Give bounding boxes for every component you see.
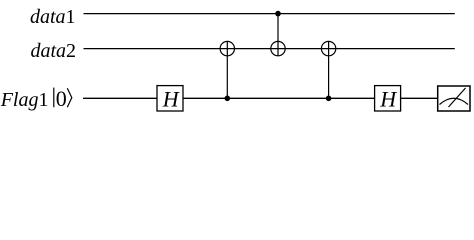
- wire column2 vertical: [277, 14, 279, 56]
- svg-text:0: 0: [56, 86, 67, 111]
- wire column3 vertical: [328, 41, 330, 98]
- svg-text:data1: data1: [30, 6, 76, 28]
- wire data2: [84, 48, 455, 50]
- wire column1 vertical: [226, 41, 228, 98]
- cnot target X2: [271, 41, 285, 55]
- svg-text:Flag1: Flag1: [0, 89, 49, 111]
- svg-text:H: H: [379, 87, 397, 112]
- control dot on data1: [275, 11, 281, 17]
- wire Flag1: [83, 97, 438, 99]
- meter needle: [449, 88, 466, 107]
- cnot target X3: [321, 41, 335, 55]
- svg-text:H: H: [162, 87, 180, 112]
- cnot target X1: [220, 41, 234, 55]
- gate H2 box: [375, 86, 401, 111]
- control dot on Flag1 (right): [326, 96, 332, 102]
- gate H1 box: [157, 86, 183, 111]
- wire data1: [84, 13, 455, 15]
- meter box: [438, 86, 470, 111]
- svg-text:data2: data2: [30, 40, 76, 62]
- control dot on Flag1 (left): [225, 96, 231, 102]
- meter arc: [440, 98, 469, 104]
